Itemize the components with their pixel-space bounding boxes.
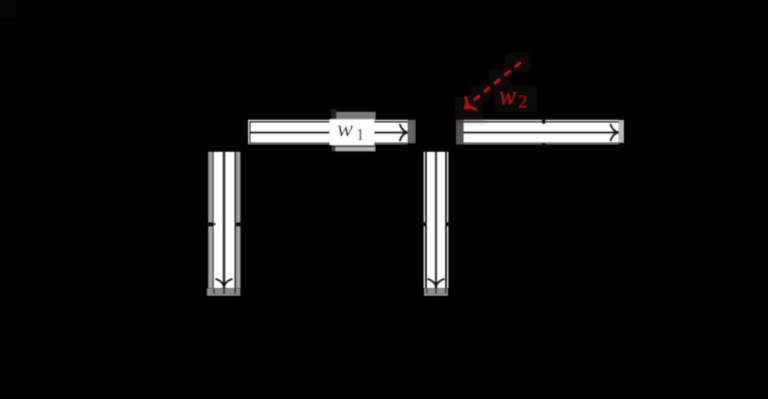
node N5 line stubs [426, 288, 428, 293]
label w1 shadow dark corner bottom [331, 147, 335, 151]
wire VB1 gray casing right upper [236, 152, 241, 223]
node N3 [619, 120, 624, 143]
arrowhead VB2 [428, 279, 444, 287]
wire VB1 white core right [225, 152, 234, 288]
wire VB1 middle line [223, 152, 225, 287]
wire VB2 casing right upper [447, 152, 449, 222]
wire VB2 middle line [435, 152, 437, 287]
wire HB1 middle line [250, 131, 406, 133]
wire HB2 middle line [464, 131, 618, 133]
wire HB1 casing bottom [248, 143, 408, 144]
wire VB1 gray casing left lower [208, 226, 213, 288]
wire VB1 white core left [214, 152, 223, 288]
faint corner block [0, 0, 17, 17]
node N5 [424, 288, 448, 296]
arrowhead w2 red [460, 97, 476, 114]
label w1 white box [330, 119, 375, 145]
red halo glow [453, 52, 539, 121]
junction tick VB1 right [235, 223, 238, 225]
wire HB2 white core [464, 122, 619, 142]
wire HB2 casing bottom [464, 143, 619, 144]
label w1 shadow gray top bar [336, 112, 375, 120]
wire HB1 casing top [248, 120, 408, 122]
junction tick VB2 right [445, 223, 449, 225]
wire VB2 white core left [427, 152, 435, 288]
label w1 box bottom border line [332, 145, 376, 147]
arrowhead VB1 [216, 279, 232, 287]
wire VB1 gray casing left upper [208, 152, 213, 223]
wire VB2 white core right [437, 152, 445, 288]
arrowhead HB1 [400, 125, 408, 141]
label w1 shadow dark corner top [331, 109, 336, 119]
wire VB2 casing right lower [447, 226, 449, 288]
node N4 line stubs [213, 288, 215, 293]
junction break HB2 bottom [542, 143, 546, 146]
svg-text:w: w [499, 81, 517, 110]
wire HB1 casing left [248, 120, 250, 145]
junction tick VB2 left [423, 223, 427, 225]
junction tick VB1 left [213, 223, 216, 225]
wire HB2 casing top [464, 120, 619, 122]
svg-text:1: 1 [356, 125, 365, 144]
arrow w2 dashed line [467, 62, 521, 105]
label w1 text [337, 117, 364, 144]
node N2 [456, 120, 463, 145]
wire VB1 gray casing right lower [236, 226, 241, 288]
label w1 shadow gray bottom bar [335, 145, 375, 151]
node N1 [408, 120, 416, 144]
arrowhead HB2 [611, 125, 619, 141]
label w2 text [499, 81, 528, 112]
svg-text:2: 2 [518, 92, 527, 112]
wire VB2 casing left upper [424, 152, 426, 222]
wire VB2 casing left lower [424, 226, 426, 288]
wire HB1 white core [250, 122, 407, 142]
junction break HB2 top [542, 119, 546, 124]
node N4 [207, 288, 240, 296]
svg-text:w: w [337, 117, 353, 143]
